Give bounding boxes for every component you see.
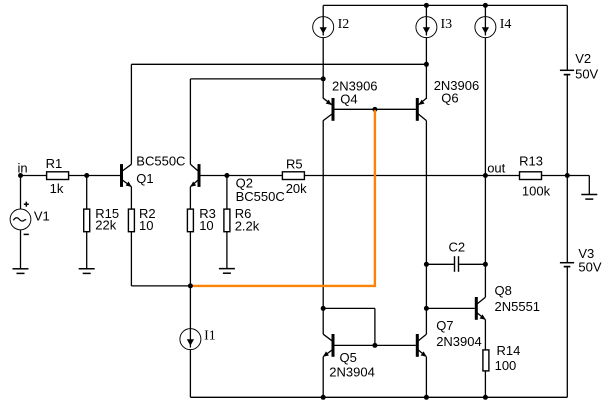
junction R6	[224, 173, 229, 178]
resistor R15	[84, 209, 90, 232]
ground at R15	[79, 269, 95, 274]
wire Q8 base	[426, 307, 474, 309]
resistor R3	[187, 209, 193, 232]
svg-text:BC550C: BC550C	[136, 154, 185, 169]
junction rail Q7	[424, 395, 429, 400]
svg-text:2N3904: 2N3904	[436, 334, 482, 349]
wire I4 to out to C2	[484, 38, 486, 264]
current source I3	[416, 17, 437, 38]
junction C2 left	[424, 262, 429, 267]
junction Q4 emitter	[321, 76, 326, 81]
svg-text:I3: I3	[441, 17, 453, 32]
wire Q6 collector to Q7 collector	[425, 121, 427, 335]
wire Q2 collector to Q4 emitter node	[190, 78, 323, 80]
wire R3 down to I1	[189, 232, 191, 329]
junction rail Q5	[321, 395, 326, 400]
wire rail to ground stub	[567, 175, 589, 177]
junction Q5 Q7 base	[372, 343, 377, 348]
current source I4	[475, 17, 496, 38]
wire orange vertical	[374, 109, 376, 287]
svg-text:50V: 50V	[575, 67, 598, 82]
resistor R2	[128, 209, 134, 232]
svg-text:Q1: Q1	[136, 171, 153, 186]
svg-text:10: 10	[139, 218, 153, 233]
svg-text:R1: R1	[46, 156, 63, 171]
transistor Q6	[416, 98, 427, 121]
wire Q5 collector link	[323, 307, 375, 309]
wire R15 to ground	[86, 232, 88, 269]
voltage source V1	[10, 202, 31, 235]
junction top rail I4	[483, 3, 488, 8]
svg-text:10: 10	[199, 218, 213, 233]
svg-text:50V: 50V	[578, 259, 601, 274]
svg-text:Q5: Q5	[340, 350, 357, 365]
resistor R6	[224, 209, 230, 232]
svg-text:V2: V2	[575, 51, 591, 66]
svg-text:I4: I4	[500, 17, 512, 32]
resistor R5	[282, 172, 304, 180]
wire I2 to Q4 emitter	[322, 38, 324, 99]
wire Q7 emitter to rail	[425, 357, 427, 398]
wire bottom rail	[190, 396, 567, 398]
resistor R14	[483, 350, 489, 371]
wire Q4 collector down	[322, 120, 324, 334]
transistor Q8	[475, 297, 486, 320]
svg-text:22k: 22k	[95, 217, 116, 232]
wire rail to I4	[484, 5, 486, 16]
svg-text:2.2k: 2.2k	[235, 218, 260, 233]
wire R5 to out to R13	[304, 175, 519, 177]
resistor R1	[47, 172, 69, 180]
wire R1 to Q1 base	[69, 175, 120, 177]
wire Q2 base to R5	[200, 175, 282, 177]
svg-text:2N5551: 2N5551	[495, 299, 541, 314]
wire Q5 emitter to rail	[322, 357, 324, 398]
wire R13 to supply rail	[542, 175, 568, 177]
resistor R13	[520, 172, 542, 180]
junction top rail I3	[424, 3, 429, 8]
svg-text:Q4: Q4	[340, 92, 357, 107]
wire Q2 emitter to R3	[189, 187, 191, 209]
junction tail node	[188, 283, 193, 288]
svg-text:100: 100	[495, 358, 517, 373]
wire rail to I2	[322, 5, 324, 16]
node in	[18, 173, 23, 178]
wire between V2 and V3	[566, 75, 568, 262]
junction supply mid	[565, 173, 570, 178]
wire Q4 base to Q6 base overdraw	[335, 108, 416, 110]
svg-text:Q8: Q8	[495, 283, 512, 298]
svg-text:R5: R5	[286, 156, 303, 171]
svg-text:R14: R14	[497, 343, 521, 358]
junction Q6 emitter	[424, 62, 429, 67]
capacitor C2	[455, 256, 459, 272]
wire I3 to Q6 emitter	[425, 38, 427, 99]
battery V2	[560, 70, 574, 74]
wire Q4 base to Q6 base	[335, 108, 416, 110]
wire V3 to bottom rail	[566, 267, 568, 397]
svg-text:in: in	[18, 160, 28, 175]
svg-text:2N3904: 2N3904	[329, 364, 375, 379]
wire Q5 base to Q7 base	[334, 344, 416, 346]
wire Q2 collector up	[189, 79, 191, 164]
svg-text:V1: V1	[34, 209, 50, 224]
transistor Q1	[120, 164, 132, 187]
junction Q8 base	[424, 306, 429, 311]
svg-text:BC550C: BC550C	[236, 189, 285, 204]
svg-text:1k: 1k	[50, 181, 64, 196]
wire Q1 emitter to R2	[130, 187, 132, 209]
wire node to R6	[226, 176, 228, 210]
wire rail to I3	[425, 5, 427, 16]
svg-text:out: out	[487, 160, 505, 175]
node out junction	[483, 173, 488, 178]
wire Q1 collector up	[130, 64, 132, 164]
wire in to R1	[21, 175, 47, 177]
transistor Q7	[416, 334, 427, 357]
current source I2	[313, 17, 334, 38]
junction Q4 Q6 base	[372, 107, 377, 112]
ground at R6	[219, 269, 235, 274]
transistor Q4	[323, 98, 334, 121]
junction rail R14	[483, 395, 488, 400]
wire top supply rail	[323, 4, 567, 6]
junction C2 right	[483, 262, 488, 267]
battery V3	[560, 263, 574, 267]
wire V2 V3 rail top	[566, 5, 568, 69]
wire R2 down	[130, 232, 132, 286]
wire C2 left	[426, 263, 454, 265]
wire Q8 emitter to R14	[484, 320, 486, 350]
wire C2 right	[459, 263, 485, 265]
wire base link down	[374, 308, 376, 345]
junction R15	[84, 173, 89, 178]
wire Q8 collector up	[484, 264, 486, 297]
svg-text:100k: 100k	[522, 183, 551, 198]
junction Q5 collector	[321, 306, 326, 311]
wire in node down to V1	[20, 176, 22, 210]
wire node to R15	[86, 176, 88, 210]
wire Q1 collector to Q6 emitter node	[131, 63, 426, 65]
transistor Q5	[323, 334, 335, 357]
wire R14 to bottom rail	[484, 371, 486, 397]
wire V1 to ground	[20, 230, 22, 269]
wire orange horizontal	[191, 285, 375, 287]
ground at V1	[13, 269, 29, 274]
svg-text:R13: R13	[519, 154, 543, 169]
svg-text:Q7: Q7	[436, 318, 453, 333]
wire I1 to bottom rail	[189, 350, 191, 398]
svg-text:I1: I1	[204, 329, 216, 344]
current source I1	[180, 329, 201, 350]
wire R6 to ground	[226, 232, 228, 269]
svg-text:20k: 20k	[286, 181, 307, 196]
transistor Q2	[190, 164, 200, 187]
ground at output	[581, 176, 597, 200]
svg-text:I2: I2	[338, 17, 350, 32]
svg-text:C2: C2	[449, 240, 466, 255]
wire R2 bottom to node	[131, 285, 190, 287]
svg-text:Q6: Q6	[441, 91, 458, 106]
